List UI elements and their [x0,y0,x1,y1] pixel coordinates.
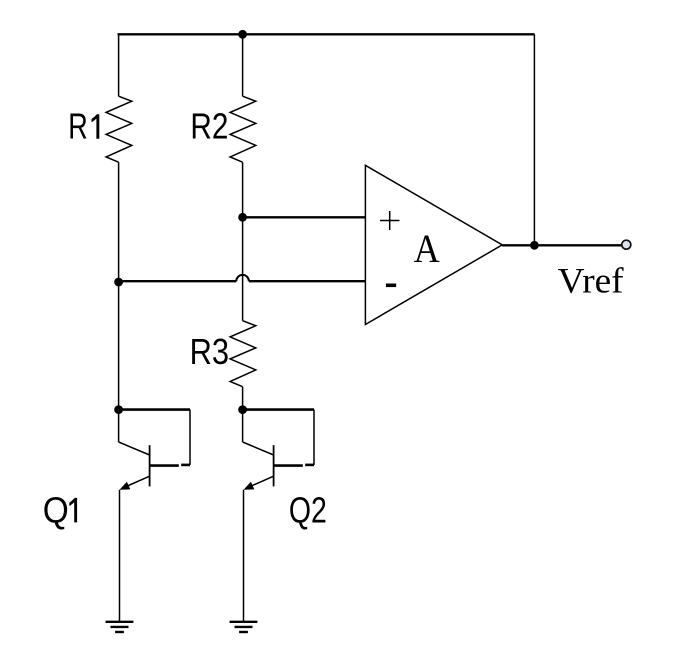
svg-text:Q2: Q2 [289,489,327,530]
svg-text:R: R [68,106,88,147]
svg-text:R3: R3 [190,331,230,372]
svg-text:A: A [414,226,440,271]
svg-text:R2: R2 [190,106,228,147]
svg-text:Q: Q [43,489,69,530]
svg-text:Vref: Vref [558,261,624,301]
